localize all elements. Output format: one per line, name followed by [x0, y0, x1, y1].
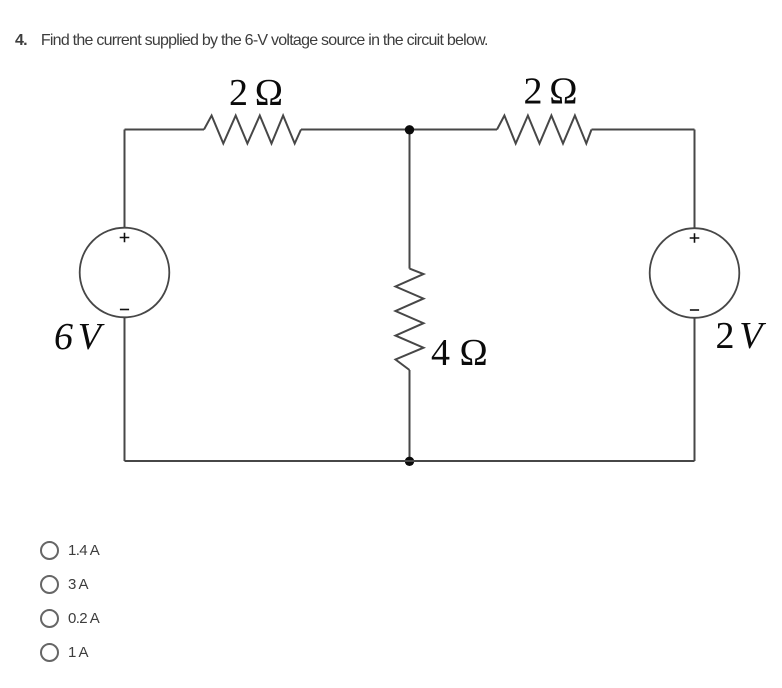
- svg-text:2 V: 2 V: [716, 315, 767, 357]
- wire: middle branch upper: [409, 130, 411, 269]
- resistor R3 (4 ohm, middle): [396, 269, 424, 370]
- resistor R1 (2 ohm, top-left): [204, 116, 301, 144]
- minus sign of V1: [120, 309, 129, 311]
- svg-text:6 V: 6 V: [54, 316, 105, 358]
- minus sign of V2: [690, 309, 699, 311]
- answer option 1.4 A: [40, 541, 99, 560]
- resistor R2 (2 ohm, top-right): [497, 116, 592, 144]
- plus sign of V2: [690, 233, 700, 243]
- voltage source V1 (6 V): [80, 228, 170, 318]
- question title: [15, 32, 488, 50]
- wire: right branch lower: [694, 318, 696, 461]
- answer option 3 A: [40, 575, 88, 594]
- wire: middle branch lower: [409, 370, 411, 461]
- voltage source V2 (2 V): [650, 228, 740, 318]
- wire: right branch upper: [694, 130, 696, 229]
- wire: top-middle segment between R1 and node A: [301, 129, 497, 131]
- answer option 1 A: [40, 643, 88, 662]
- plus sign of V1: [120, 233, 130, 243]
- wire: bottom rail: [125, 460, 695, 462]
- svg-text:4 Ω: 4 Ω: [431, 332, 488, 374]
- node B (bottom junction dot): [405, 457, 414, 466]
- answer option 0.2 A: [40, 609, 99, 628]
- node A (top junction dot): [405, 125, 414, 134]
- wire: top-right segment from R2 to right corner: [592, 129, 695, 131]
- wire: top-left segment from left corner to resistor R1: [125, 129, 205, 131]
- svg-text:2 Ω: 2 Ω: [524, 71, 578, 113]
- wire: left branch upper: [124, 130, 126, 228]
- wire: left branch lower: [124, 317, 126, 461]
- svg-text:2 Ω: 2 Ω: [229, 72, 283, 114]
